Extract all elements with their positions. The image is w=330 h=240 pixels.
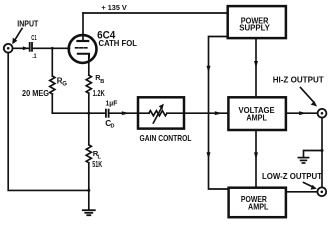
arrow into C1 [23,46,29,50]
svg-text:CATH FOL: CATH FOL [99,39,138,48]
arrow into voltage ampl [215,111,223,115]
hi-z output jack J2 [318,109,327,118]
grid dashes [76,47,88,49]
node grid/RG junction [51,47,54,50]
wire RL to ground node [88,163,90,210]
cathode [78,54,89,58]
input jack J1 [4,44,13,53]
svg-text:AMPL: AMPL [248,202,268,212]
wire +135V rail [83,12,228,14]
svg-text:GAIN CONTROL: GAIN CONTROL [140,133,192,143]
arrow INPUT pointer [12,29,22,45]
svg-text:.1: .1 [32,53,37,60]
wire junction down to RG [51,48,53,76]
cathode lead down [88,58,90,76]
arrow toward hi-z jack [299,111,307,115]
wire voltage ampl to power ampl [255,130,257,188]
triode tube V1 6C4 [69,13,97,75]
node ground return junction [87,189,90,192]
power supply box [228,6,286,38]
wire power supply to voltage ampl [255,38,257,97]
wire ground stub [304,151,323,158]
svg-text:C1: C1 [31,33,36,42]
wire jack to C1 [13,47,30,49]
gain control box [138,97,184,128]
svg-text:B: B [100,79,104,85]
plate lead up [82,13,84,41]
arrow into power ampl top [254,152,258,159]
low-z output jack J3 [317,187,326,196]
plate bar [78,40,89,42]
arrow down lower [207,152,211,159]
resistor RB [86,75,91,93]
node ground tap [321,149,324,152]
svg-text:1µF: 1µF [106,99,118,108]
ground main [83,210,95,215]
wire voltage ampl to hi-z jack [286,112,318,114]
resistor RL [86,145,91,163]
arrow into voltage ampl top [254,61,258,68]
wire gain control to voltage ampl [184,112,228,114]
wire ground return from input jack [8,53,89,191]
svg-text:SUPPLY: SUPPLY [239,22,270,32]
wire bus junction down to RL [88,113,90,145]
svg-text:20 MEG: 20 MEG [22,88,49,98]
voltage ampl box [228,97,286,130]
potentiometer R2 inside gain control [138,104,184,123]
svg-text:G: G [62,81,67,87]
svg-text:LOW-Z OUTPUT: LOW-Z OUTPUT [262,171,322,181]
arrow toward gain control [122,111,130,115]
arrow LOW-Z pointer [304,183,317,190]
svg-text:+ 135 V: + 135 V [101,3,127,12]
wire CD to gain control [110,112,139,114]
power ampl box [229,188,286,218]
wire RG bottom to bus [51,94,53,113]
arrow HI-Z pointer [301,88,318,107]
capacitor CD [106,110,109,117]
svg-text:51K: 51K [92,160,102,169]
svg-text:D: D [111,124,115,130]
svg-text:HI-Z OUTPUT: HI-Z OUTPUT [273,74,324,84]
capacitor C1 [30,43,32,51]
svg-text:1.2K: 1.2K [93,88,105,98]
arrow down upper [207,66,211,73]
svg-text:AMPL: AMPL [246,113,267,123]
ground output [298,158,308,163]
svg-text:INPUT: INPUT [17,19,38,29]
node RB/bus junction [87,112,90,115]
wire power ampl to low-z jack [286,191,318,193]
wire hi-z jack to low-z jack shell [321,118,323,188]
wire RB bottom to bus [88,93,90,113]
wire power supply left to feedback drop [209,37,229,190]
resistor RG [50,76,55,94]
wire signal bus RG corner to CD [52,112,105,114]
wire C1 to tube grid [33,47,70,49]
